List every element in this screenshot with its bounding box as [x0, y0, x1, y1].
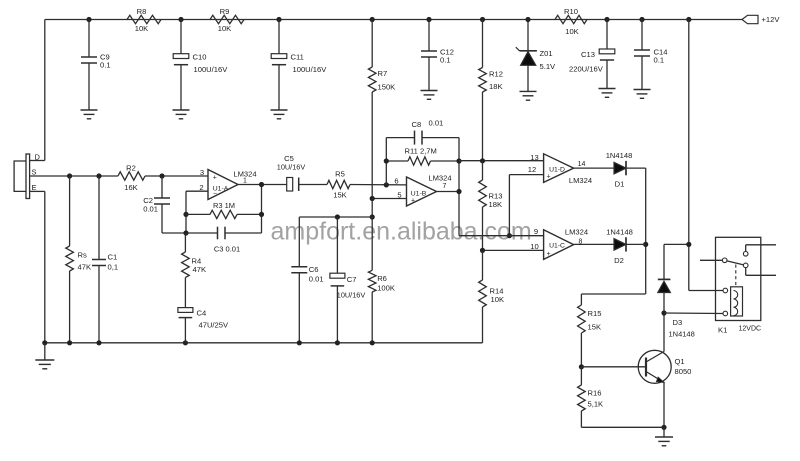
- svg-text:U1-C: U1-C: [549, 242, 565, 249]
- node +12V to D3 branch: [686, 242, 691, 247]
- capacitor C11: [278, 20, 280, 54]
- wire top +12V rail: [45, 19, 742, 21]
- ground main bus: [44, 343, 46, 360]
- svg-text:Z01: Z01: [540, 49, 553, 58]
- resistor R4: [184, 233, 186, 252]
- svg-text:LM324: LM324: [428, 174, 451, 183]
- node feedback left C2/R4: [183, 230, 188, 235]
- svg-text:150K: 150K: [378, 83, 396, 92]
- wire D1 to R15 corner: [626, 167, 646, 169]
- resistor R11 2.7M: [386, 160, 408, 162]
- svg-text:220U/16V: 220U/16V: [569, 65, 604, 74]
- ground C9: [81, 109, 98, 111]
- wire mic D to rail: [30, 160, 45, 162]
- resistor R3 1M: [186, 213, 210, 215]
- relay coil: [731, 287, 743, 316]
- resistor R9: [210, 15, 244, 23]
- relay coil pins: [723, 288, 728, 293]
- ground C11: [271, 109, 288, 111]
- svg-text:10K: 10K: [135, 24, 149, 33]
- svg-text:R12: R12: [489, 70, 503, 79]
- node pin5 junction: [370, 196, 375, 201]
- svg-text:12VDC: 12VDC: [739, 326, 762, 333]
- svg-text:C8: C8: [412, 120, 422, 129]
- svg-text:+12V: +12V: [762, 15, 781, 24]
- svg-text:U1-D: U1-D: [549, 166, 565, 173]
- ground Z01: [520, 90, 537, 92]
- ground C10: [173, 109, 190, 111]
- resistor R6: [371, 217, 373, 270]
- svg-text:R9: R9: [220, 7, 230, 16]
- wire R7 column to C6 line: [371, 199, 373, 218]
- node C1 junction: [96, 173, 101, 178]
- node U1-A output: [259, 182, 264, 187]
- node R12/R13 junction: [480, 158, 485, 163]
- capacitor C5: [287, 178, 293, 192]
- resistor R13: [479, 180, 487, 207]
- diode D2 1N4148: [614, 239, 626, 251]
- svg-text:R16: R16: [588, 389, 602, 398]
- node emitter/ground junction: [661, 425, 666, 430]
- capacitor C8: [386, 137, 414, 139]
- resistor R8: [127, 15, 161, 23]
- svg-text:ampfort.en.alibaba.com: ampfort.en.alibaba.com: [271, 218, 532, 246]
- node C2 junction: [159, 173, 164, 178]
- svg-text:D3: D3: [673, 318, 683, 327]
- capacitor C14: [641, 20, 643, 51]
- node pin9 row junction: [507, 233, 512, 238]
- capacitor C2: [161, 176, 163, 198]
- wire left rail drop to mic D: [44, 20, 46, 161]
- resistor R16: [578, 385, 586, 411]
- svg-text:LM324: LM324: [565, 228, 588, 237]
- node feedback right R3: [259, 212, 264, 217]
- svg-text:6: 6: [394, 177, 398, 186]
- svg-text:100U/16V: 100U/16V: [194, 65, 229, 74]
- node R7 rail junction: [370, 17, 375, 22]
- electret microphone MIC: [26, 154, 30, 199]
- node bus C4: [183, 340, 188, 345]
- node bus Rs: [67, 340, 72, 345]
- svg-text:R6: R6: [377, 274, 387, 283]
- svg-text:5,1K: 5,1K: [588, 400, 604, 409]
- svg-text:7: 7: [443, 183, 447, 190]
- svg-text:0.1: 0.1: [654, 56, 665, 65]
- svg-text:D2: D2: [614, 256, 624, 265]
- svg-text:18K: 18K: [489, 200, 503, 209]
- node C9 rail junction: [86, 17, 91, 22]
- node R5 to feedback U1-B: [384, 182, 389, 187]
- svg-text:0.1: 0.1: [440, 56, 451, 65]
- node C7 top junction: [335, 214, 340, 219]
- wire U1-C output to D2: [574, 243, 614, 245]
- wire U1-A output and right feedback vertical: [238, 184, 287, 186]
- resistor R14: [479, 280, 487, 307]
- svg-text:U1-B: U1-B: [411, 191, 427, 198]
- relay common contact stub: [700, 259, 722, 261]
- svg-text:R3 1M: R3 1M: [213, 201, 235, 210]
- svg-text:10K: 10K: [218, 24, 232, 33]
- svg-text:0.01: 0.01: [429, 119, 444, 128]
- svg-text:10K: 10K: [565, 27, 579, 36]
- wire Q1 collector: [663, 313, 665, 352]
- svg-text:16K: 16K: [124, 183, 138, 192]
- node U1-B output: [456, 189, 461, 194]
- svg-text:100K: 100K: [377, 284, 395, 293]
- ground C13: [599, 88, 616, 90]
- node Z01 rail junction: [525, 17, 530, 22]
- svg-text:Rs: Rs: [78, 251, 87, 260]
- resistor R15: [580, 294, 582, 305]
- resistor R5: [327, 180, 350, 188]
- svg-text:LM324: LM324: [569, 176, 592, 185]
- svg-text:47K: 47K: [193, 265, 207, 274]
- svg-text:U1-A: U1-A: [213, 185, 229, 192]
- wire coil bottom to D3: [664, 312, 723, 315]
- ground C14: [634, 89, 651, 91]
- node C11 rail junction: [276, 17, 281, 22]
- svg-text:C10: C10: [193, 53, 207, 62]
- svg-text:+: +: [547, 251, 551, 258]
- capacitor C7: [336, 217, 338, 273]
- wire U1-A pin2 feedback: [186, 190, 208, 192]
- svg-text:C11: C11: [291, 53, 304, 62]
- node R12 rail junction: [480, 17, 485, 22]
- capacitor C12: [428, 20, 430, 52]
- node feedback left R3: [183, 212, 188, 217]
- svg-text:+: +: [411, 198, 415, 205]
- node bus left end: [42, 340, 47, 345]
- relay K1 box: [716, 237, 761, 320]
- capacitor C1: [98, 176, 100, 260]
- op-amp U1-B: [407, 177, 437, 206]
- svg-text:13: 13: [530, 153, 538, 162]
- op-amp U1-C: [544, 230, 574, 260]
- resistor R12: [482, 20, 484, 68]
- node bus R6: [370, 340, 375, 345]
- resistor R10: [555, 15, 587, 23]
- diode D3 1N4148 flyback: [664, 243, 689, 245]
- node R11 left: [384, 158, 389, 163]
- svg-text:10U/16V: 10U/16V: [277, 162, 306, 171]
- svg-text:R11 2,7M: R11 2,7M: [405, 147, 437, 156]
- svg-text:18K: 18K: [489, 82, 503, 91]
- wire mic S signal line: [30, 175, 118, 177]
- +12V supply tag: [742, 15, 758, 23]
- wire R2 to U1-A pin3: [145, 175, 208, 177]
- svg-text:0.01: 0.01: [309, 275, 324, 284]
- wire pin12 row from divider: [509, 174, 543, 176]
- svg-text:10: 10: [530, 242, 538, 251]
- svg-text:K1: K1: [718, 326, 727, 335]
- wire C6 C7 R6 top line: [299, 216, 372, 218]
- ground bus bottom: [45, 342, 483, 344]
- capacitor C6: [298, 217, 300, 267]
- svg-text:47K: 47K: [78, 263, 92, 272]
- svg-text:10U/16V: 10U/16V: [337, 291, 366, 300]
- op-amp U1-A: [208, 170, 238, 200]
- svg-text:1N4148: 1N4148: [606, 228, 633, 237]
- resistor Rs: [69, 176, 71, 246]
- capacitor C10: [180, 20, 182, 54]
- capacitor C13: [606, 20, 608, 50]
- capacitor C9: [88, 20, 90, 58]
- ground C12: [421, 90, 438, 92]
- svg-text:C7: C7: [347, 275, 357, 284]
- resistor R2: [118, 172, 145, 180]
- svg-text:E: E: [32, 183, 37, 192]
- node R11 right: [456, 158, 461, 163]
- node D3 anode / coil bottom junction: [661, 310, 666, 315]
- svg-text:R8: R8: [137, 7, 147, 16]
- svg-text:C4: C4: [197, 309, 207, 318]
- svg-text:Q1: Q1: [675, 357, 685, 366]
- svg-text:S: S: [32, 168, 37, 177]
- wire +12V drop to relay coil: [688, 20, 690, 291]
- wire feedback left vertical U1-B: [385, 138, 387, 185]
- node D1/D2 junction: [643, 242, 648, 247]
- svg-text:R7: R7: [378, 69, 388, 78]
- svg-text:R2: R2: [126, 164, 136, 173]
- wire pin9 row: [459, 235, 544, 237]
- wire U1-B output: [437, 191, 460, 193]
- node bus C7: [335, 340, 340, 345]
- svg-text:100U/16V: 100U/16V: [293, 65, 328, 74]
- diode D1 1N4148: [614, 162, 626, 174]
- svg-text:+: +: [547, 174, 551, 181]
- node relay-feed rail junction: [686, 17, 691, 22]
- resistor R7: [371, 20, 373, 68]
- svg-text:0.01: 0.01: [143, 205, 158, 214]
- svg-text:1N4148: 1N4148: [669, 330, 695, 339]
- svg-text:9: 9: [534, 227, 538, 236]
- wire pin10 row: [483, 249, 544, 251]
- svg-text:15K: 15K: [588, 323, 602, 332]
- svg-text:C1: C1: [108, 253, 118, 262]
- capacitor C3: [186, 232, 218, 234]
- svg-text:1: 1: [243, 178, 247, 185]
- node bus C1: [96, 340, 101, 345]
- svg-text:+: +: [213, 174, 217, 181]
- node C14 rail junction: [639, 17, 644, 22]
- svg-text:12: 12: [528, 165, 536, 174]
- wire Q1 emitter: [663, 383, 665, 428]
- svg-text:8050: 8050: [675, 367, 692, 376]
- svg-text:R15: R15: [588, 309, 602, 318]
- svg-text:10K: 10K: [491, 295, 505, 304]
- node bus C6: [297, 340, 302, 345]
- wire R16 bottom to emitter: [581, 426, 664, 428]
- svg-text:R5: R5: [335, 170, 345, 179]
- relay armature: [727, 261, 744, 265]
- svg-text:3: 3: [200, 168, 204, 177]
- svg-text:14: 14: [578, 161, 586, 168]
- svg-text:0,1: 0,1: [108, 263, 119, 272]
- relay NO contact: [743, 263, 748, 268]
- op-amp U1-D: [544, 154, 574, 183]
- svg-text:15K: 15K: [333, 191, 347, 200]
- node C6/C7/R6 top line junction: [370, 214, 375, 219]
- node Rs junction: [67, 173, 72, 178]
- wire D2 to junction: [626, 243, 646, 245]
- wire R7 to U1-B pin5: [372, 198, 406, 200]
- svg-text:R10: R10: [564, 7, 578, 16]
- node Q1 base junction: [579, 364, 584, 369]
- svg-text:5.1V: 5.1V: [540, 62, 557, 71]
- svg-text:47U/25V: 47U/25V: [199, 321, 229, 330]
- svg-text:5: 5: [397, 191, 401, 200]
- svg-text:C13: C13: [581, 50, 595, 59]
- wire feedback right vertical down to pin9 row: [458, 138, 460, 236]
- svg-text:D1: D1: [615, 180, 625, 189]
- capacitor C4: [178, 308, 193, 313]
- svg-text:0.1: 0.1: [100, 61, 111, 70]
- node C10 rail junction: [178, 17, 183, 22]
- relay actuator dashed link: [735, 265, 737, 287]
- wire mic E down to ground bus: [30, 190, 45, 192]
- node C12 rail junction: [426, 17, 431, 22]
- wire pin13 row: [459, 160, 544, 162]
- svg-text:1N4148: 1N4148: [606, 151, 633, 160]
- ground Q1 emitter: [663, 427, 665, 437]
- node pin10 junction: [480, 248, 485, 253]
- wire U1-D output to D1: [574, 167, 614, 169]
- svg-text:C3 0.01: C3 0.01: [214, 245, 240, 254]
- node C13 rail junction: [604, 17, 609, 22]
- transistor Q1 8050: [638, 350, 671, 383]
- relay NC contact: [743, 252, 748, 257]
- zener Z01 5.1V: [527, 20, 529, 51]
- svg-text:C6: C6: [309, 265, 319, 274]
